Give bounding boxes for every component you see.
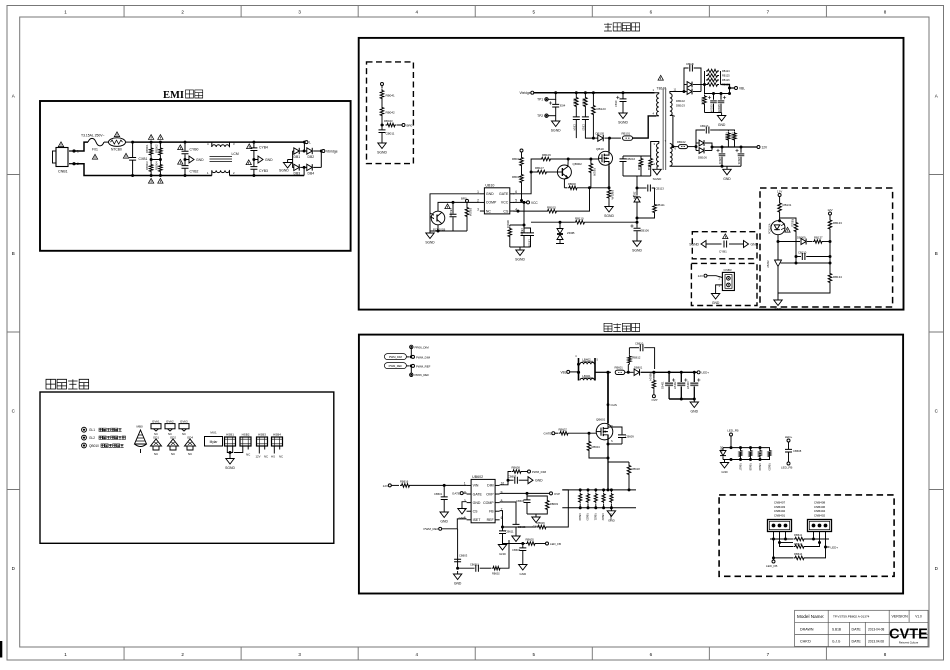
svg-text:CB117: CB117 [700,124,709,128]
capacitor CB14 [573,108,580,138]
svg-text:ZD0B: ZD0B [567,231,574,235]
diode DB105 clamp [593,131,611,141]
svg-text:CB113: CB113 [656,187,665,191]
wire VCC node [513,201,538,205]
svg-text:B: B [935,251,938,256]
shunt regulator UB302 [767,242,798,298]
svg-text:RB104: RB104 [469,208,473,216]
svg-text:CB605: CB605 [518,526,526,529]
svg-text:RB132: RB132 [791,219,795,228]
node PR06_REF [410,366,430,377]
svg-text:GND: GND [712,301,720,305]
svg-text:GL1: GL1 [89,428,95,432]
svg-text:SGND: SGND [618,121,628,125]
svg-text:RB603: RB603 [550,502,559,506]
svg-text:CB601: CB601 [434,492,443,496]
capacitor CB011 [379,125,395,140]
NTC thermistor NTCB0 [104,138,133,152]
svg-text:VERSION: VERSION [892,615,909,619]
svg-text:CB611: CB611 [506,530,515,534]
svg-text:CB011: CB011 [386,132,395,136]
svg-text:EMI: EMI [163,90,184,101]
warning triangles resistor network [148,135,163,184]
svg-text:GND: GND [459,516,467,520]
resistor RB616 [400,480,467,488]
warning triangles near CYB0 CYB2 [178,145,183,164]
svg-text:SGND: SGND [377,151,387,155]
svg-text:RB107: RB107 [535,166,544,170]
svg-text:GND: GND [723,177,731,181]
resistors RB124 RB125 RB126 RB127 [701,69,730,87]
resistor RB115 [623,156,651,176]
svg-text:RB129: RB129 [731,132,734,140]
capacitor EB106 [630,222,649,238]
title block table [795,610,928,646]
capacitor CB6011 [458,563,491,571]
svg-text:RB111: RB111 [657,203,666,207]
svg-text:RB601: RB601 [615,366,624,370]
diodes DB106 [695,140,713,159]
svg-text:FB: FB [489,510,494,514]
test point TP2 [537,114,556,118]
diode DB2 [300,148,321,159]
svg-text:OVP: OVP [486,492,494,496]
svg-text:CB6011: CB6011 [470,563,479,566]
svg-text:VBL: VBL [560,370,566,374]
svg-text:RB621: RB621 [593,513,596,521]
ground SGND opto [425,227,439,245]
heatsink pad HSB1 [225,432,236,455]
resistor RB614 OVP [649,372,658,402]
svg-text:RB101: RB101 [622,131,631,135]
svg-text:CB604: CB604 [512,548,521,552]
capacitor CB117 [696,124,719,143]
svg-text:CHK'D: CHK'D [800,640,811,644]
resistor RB109 [589,158,596,188]
svg-text:RB015: RB015 [547,205,556,209]
svg-text:RB618: RB618 [748,463,751,471]
node L [303,141,311,151]
svg-text:A: A [935,93,938,98]
svg-text:RB641: RB641 [794,533,803,537]
svg-text:VBL: VBL [739,87,745,91]
wire CNB1 to rails [74,142,133,175]
transformer TB101 [653,87,685,171]
svg-text:NC: NC [264,455,268,459]
svg-text:LED_FB: LED_FB [781,466,792,470]
connector CNB1 [53,148,80,174]
svg-text:CB609: CB609 [626,435,635,439]
pad EVA2 [165,419,175,436]
svg-text:RB604: RB604 [592,445,601,449]
svg-text:CVTE: CVTE [889,627,928,643]
wire ref divider [796,257,832,265]
capacitor CB101 [520,225,527,247]
svg-text:Reinvent Culture: Reinvent Culture [899,640,919,644]
opto coupler PCB101A [769,219,786,243]
resistor RB133 [828,219,842,257]
svg-text:RB115: RB115 [637,163,640,171]
fuse F01 [81,134,105,152]
svg-text:DB009: DB009 [797,236,806,240]
node VBL input [560,370,577,374]
svg-text:PR06_DIM: PR06_DIM [415,345,430,349]
svg-text:HS: HS [271,455,275,459]
wire EMI top rail [133,141,305,143]
svg-text:PWM_REF: PWM_REF [416,364,431,368]
svg-text:EB103: EB103 [737,157,740,165]
warning triangle near CXB1 [123,153,128,158]
svg-text:DB1: DB1 [294,155,301,159]
svg-text:UB10: UB10 [485,183,494,187]
bead RB101 [610,116,657,140]
resistor RB604 [587,433,609,459]
capacitor EB403 [687,372,701,399]
dashed box CNB3 [691,263,757,305]
diode DB601 [628,366,655,376]
svg-text:QB601: QB601 [596,418,606,422]
ground SGND under CB19 [618,110,628,125]
ground SGND vcc filter [510,247,531,262]
zener ZD0B [556,222,574,243]
capacitor CB608 [785,449,802,460]
svg-text:GND: GND [535,479,543,483]
svg-text:LED_FB: LED_FB [766,564,777,568]
svg-text:2: 2 [464,490,466,494]
node LED+ connector [826,546,839,550]
svg-text:SGND: SGND [225,466,235,470]
svg-text:RB124: RB124 [722,70,730,73]
svg-text:DB102: DB102 [676,99,685,103]
warning triangle feedback [785,227,790,232]
wire led fb bank rails [723,446,770,461]
heatsink pad HSB3 [256,432,269,458]
wire source to shunt [607,462,610,491]
title block text [797,614,922,644]
ground SGND under RB014A [604,204,614,219]
svg-text:OVP: OVP [554,492,560,496]
svg-text:NTCB0: NTCB0 [111,148,122,152]
svg-text:RB043: RB043 [384,119,393,123]
capacitor CB607 [507,474,529,483]
connector CNB3 [719,268,735,291]
wire aux winding to RB116 [651,142,656,157]
svg-text:3: 3 [477,207,479,211]
svg-text:SGND: SGND [279,169,289,173]
capacitor CB19 [614,91,627,110]
ground SGND under E04 [551,118,561,133]
svg-text:RB608: RB608 [512,466,521,470]
ground GND feedback [774,297,783,312]
ground GND led fb bank [720,460,728,475]
svg-text:RB042: RB042 [386,111,396,115]
wire aux sense bottom [623,176,651,185]
constant-current section title 恒流电路 [604,323,640,331]
EMI section box [40,101,351,251]
svg-text:Model Name:: Model Name: [797,614,824,619]
svg-text:GND: GND [486,192,494,196]
capacitor CB605 comp [512,524,526,541]
node LED+ cap [785,435,793,449]
warning triangle near opto [445,204,450,209]
ground GND iset [453,571,462,586]
auxiliary materials box [40,392,334,543]
resistor RB111 [636,190,666,220]
svg-text:RB642: RB642 [794,542,803,546]
wire VCC to filter [510,202,526,226]
warning triangle near F01 [92,154,97,159]
wire pin9 OVP [500,492,561,496]
resistor RB004 [155,161,163,173]
opto coupler PCB101B [430,202,480,231]
node 12V CNB3 [698,274,723,278]
svg-text:HSB4: HSB4 [273,432,281,436]
svg-text:RB004: RB004 [155,161,159,170]
resistor RB013 chain top [512,149,523,173]
svg-text:3: 3 [464,499,466,503]
wire CHS node [606,371,616,424]
svg-text:12V: 12V [762,146,769,150]
capacitor CB103 [438,201,467,231]
resistor RB002 [155,144,163,156]
svg-text:RB119: RB119 [582,98,586,106]
node GATE [544,432,558,436]
svg-text:TP.VST59.PB802 A-01374: TP.VST59.PB802 A-01374 [833,615,870,619]
svg-text:GND: GND [718,123,726,127]
svg-text:EVA1: EVA1 [152,419,160,423]
svg-text:V1.0: V1.0 [915,615,922,619]
warning triangle above transformer [658,75,663,80]
capacitor CB13 [582,108,594,138]
ground GND CB611 [498,542,506,557]
resistor RB606 [503,490,569,529]
svg-text:CYB4: CYB4 [259,146,268,150]
inductor LB402 LB401 [575,355,608,381]
capacitor CYB0 [182,141,199,160]
svg-text:CB19: CB19 [614,100,618,107]
svg-text:DRAWN: DRAWN [800,628,814,632]
resistor RB123 [592,91,606,139]
capacitor CB016 [620,156,636,176]
svg-text:TP1: TP1 [537,98,543,102]
resistor RB131 [778,202,792,221]
resistor RB603 [527,496,559,514]
label LED_FB bank [727,429,738,448]
node 12V feedback 2 [827,208,832,219]
svg-text:RB616: RB616 [400,480,409,484]
wire pin3 gnd [462,502,467,506]
screw GD2 [168,436,179,456]
resistor RB001 [145,144,153,156]
svg-text:ISET: ISET [473,518,482,522]
svg-text:RB619: RB619 [578,513,581,521]
label PWM_REF flag [384,363,430,369]
svg-text:RB612: RB612 [632,356,641,360]
node PR06_DIM [410,345,430,357]
svg-text:VIN: VIN [473,484,479,488]
svg-text:EVA2: EVA2 [166,419,174,423]
svg-text:RB003: RB003 [145,161,149,170]
resistor RB642 [780,542,820,548]
capacitor EB105 [717,92,726,113]
svg-text:EB402: EB402 [674,381,677,389]
ground GND pin3 [458,506,466,521]
svg-text:GND: GND [608,518,616,522]
capacitor CB604 [512,542,526,562]
capacitor CB611 [499,527,514,542]
svg-text:Mylar: Mylar [210,440,219,444]
resistor RB128 [719,130,730,147]
flyback section title 反激电路 [604,23,640,31]
resistor RB014A [607,188,614,204]
wire LED+ rail [654,371,697,374]
svg-text:EB401: EB401 [662,381,665,389]
ground SGND bridge [279,160,293,173]
diode DB009 [778,236,812,245]
svg-text:RB622: RB622 [601,513,604,521]
node Vbridge input [520,91,655,95]
wire gate drive [513,159,540,194]
svg-text:GND: GND [774,308,782,312]
svg-text:CYB0: CYB0 [190,148,199,152]
ground arrow GND mid CYB4/CYB3 [252,156,273,163]
svg-text:SGND: SGND [604,214,614,218]
svg-text:GND: GND [721,470,727,474]
svg-text:CB13: CB13 [582,124,586,131]
svg-text:RB131: RB131 [783,203,792,207]
ground arrow SGND left [689,241,721,248]
capacitor CB606 [516,493,531,514]
svg-text:S.B1B: S.B1B [832,628,841,632]
svg-text:D: D [611,425,613,428]
svg-text:RB102: RB102 [677,140,686,144]
capacitor EB401 [662,372,676,399]
svg-text:GND: GND [196,158,204,162]
diodes DB102 DB103 [676,77,701,108]
svg-text:E04: E04 [560,104,566,108]
svg-text:DB106: DB106 [698,156,707,160]
node Vbridge [320,150,338,168]
zone numbers top [64,10,886,15]
svg-text:LED_FB: LED_FB [727,429,738,433]
ground GND CNB3 [711,291,720,306]
bullet note QB010 [82,443,124,448]
pin top of divider [381,83,384,89]
resistor RB608 [512,466,547,474]
flyback section box [359,38,904,310]
CVTE logo [889,627,928,645]
zone letters left [12,93,16,571]
svg-text:CNB402: CNB402 [814,513,826,517]
wire pin8 COMP [500,502,516,524]
svg-text:CB101: CB101 [520,228,523,236]
svg-text:CNB407: CNB407 [774,501,786,505]
svg-text:RB619: RB619 [758,463,761,471]
resistor RB602 [492,540,510,576]
wire pin1 GND [430,194,480,227]
svg-text:RB002: RB002 [155,144,159,153]
svg-text:RB126: RB126 [722,79,730,82]
resistor RB015 [546,188,590,213]
bullet note GL2 [82,435,126,440]
svg-text:RB110: RB110 [575,216,584,220]
screw GD1 [151,436,162,456]
svg-text:DIM: DIM [487,484,494,488]
svg-text:CNB3: CNB3 [724,268,732,272]
wire EMI bottom rail [133,175,305,177]
svg-text:GND: GND [499,552,507,556]
svg-text:2013-04-08: 2013-04-08 [868,628,885,632]
diode DB3 [293,160,301,176]
svg-text:CB110: CB110 [798,251,807,255]
wire CS sense [513,210,546,213]
svg-text:HSB2: HSB2 [242,432,250,436]
svg-text:NC: NC [486,209,492,213]
wires LED connector left [770,532,789,558]
capacitor CXB1 [129,141,147,177]
svg-text:SGND: SGND [515,258,525,262]
common-mode choke LCM [207,142,239,176]
svg-text:SGND: SGND [689,243,699,247]
svg-text:SGND: SGND [551,129,561,133]
svg-text:RB607: RB607 [559,427,568,431]
ground GND CB601 [440,509,449,524]
svg-text:GATE: GATE [544,432,552,436]
capacitor CB601 [434,485,448,509]
capacitor EB104 [708,92,717,113]
resistor RB090 emitter [564,182,610,190]
svg-text:ZB004: ZB004 [633,192,636,200]
svg-text:12V: 12V [698,274,703,278]
svg-text:CB610: CB610 [635,342,644,346]
ground GND secondary bottom [723,166,732,181]
svg-text:CYB3: CYB3 [259,169,268,173]
svg-text:DB3: DB3 [294,171,301,175]
resistor RB043 [381,119,413,128]
svg-text:RB016: RB016 [512,175,521,179]
capacitor CYB2 [182,160,199,178]
resistor RB134 [778,263,842,297]
svg-text:DB601: DB601 [634,366,643,370]
svg-text:SGND: SGND [425,241,435,245]
svg-text:F01: F01 [92,148,98,152]
ground SGND HSB1 [225,456,235,471]
resistor RB612 [628,348,641,373]
diode DB604 [720,446,727,460]
wire 12V rail [711,146,758,149]
svg-text:RB013: RB013 [512,157,521,161]
svg-text:VCC: VCC [531,201,538,205]
resistor RB137 [813,236,831,244]
svg-text:PR06_REF: PR06_REF [415,373,430,377]
pad EVA3 [179,419,189,436]
warning triangle near CNB1 [58,142,63,147]
svg-text:TP2: TP2 [537,114,543,118]
svg-text:CNB401: CNB401 [774,513,786,517]
IC UB10 [477,183,517,214]
svg-text:CNB402: CNB402 [774,509,786,513]
svg-text:RB133: RB133 [833,221,842,225]
node VBL output [721,85,746,91]
svg-text:12V: 12V [383,484,388,488]
svg-text:RB123: RB123 [597,107,607,111]
resistor RB140 [701,83,731,113]
svg-text:PWM_DIM: PWM_DIM [532,470,547,474]
svg-text:QB10: QB10 [596,147,604,151]
resistor RB129 [728,130,736,147]
wire pin10 DIM [500,472,511,485]
svg-text:CS: CS [503,209,509,213]
